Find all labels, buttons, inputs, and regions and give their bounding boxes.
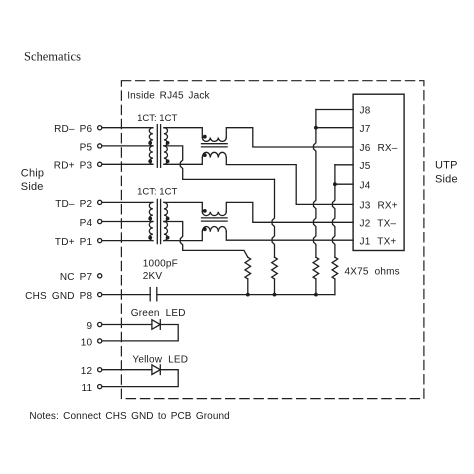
svg-text:Inside RJ45 Jack: Inside RJ45 Jack — [127, 91, 210, 102]
svg-text:J5: J5 — [360, 161, 371, 172]
svg-text:J7: J7 — [360, 124, 371, 135]
svg-text:J1 TX+: J1 TX+ — [360, 236, 397, 247]
svg-text:1CT: 1CT: 1CT: 1CT — [137, 187, 177, 198]
svg-text:Side: Side — [435, 173, 458, 185]
svg-text:P4: P4 — [80, 218, 93, 229]
svg-text:TD– P2: TD– P2 — [55, 199, 92, 210]
svg-text:Green LED: Green LED — [131, 308, 186, 319]
svg-text:4X75 ohms: 4X75 ohms — [345, 266, 400, 277]
svg-text:Side: Side — [21, 181, 44, 193]
svg-text:Schematics: Schematics — [24, 50, 81, 64]
svg-text:Yellow LED: Yellow LED — [132, 355, 188, 366]
svg-text:J6 RX–: J6 RX– — [360, 143, 398, 154]
svg-text:RD– P6: RD– P6 — [54, 124, 92, 135]
svg-text:11: 11 — [82, 383, 93, 394]
svg-text:9: 9 — [87, 321, 93, 332]
svg-text:UTP: UTP — [435, 159, 458, 171]
svg-text:1000pF: 1000pF — [143, 259, 178, 270]
svg-text:Chip: Chip — [21, 168, 44, 180]
svg-text:J2 TX–: J2 TX– — [360, 219, 397, 230]
svg-text:1CT: 1CT: 1CT: 1CT — [137, 113, 177, 124]
svg-text:J8: J8 — [360, 106, 371, 117]
svg-text:CHS GND P8: CHS GND P8 — [25, 291, 92, 302]
svg-text:J4: J4 — [360, 180, 371, 191]
svg-text:RD+ P3: RD+ P3 — [54, 161, 93, 172]
svg-text:P5: P5 — [80, 142, 93, 153]
svg-text:2KV: 2KV — [143, 271, 163, 282]
svg-text:12: 12 — [81, 366, 93, 377]
svg-text:10: 10 — [81, 337, 93, 348]
svg-text:Notes: Connect CHS GND to: Notes: Connect CHS GND to PCB Ground — [29, 411, 229, 422]
svg-text:NC P7: NC P7 — [60, 272, 93, 283]
svg-text:J3 RX+: J3 RX+ — [360, 201, 398, 212]
svg-text:TD+ P1: TD+ P1 — [55, 237, 93, 248]
